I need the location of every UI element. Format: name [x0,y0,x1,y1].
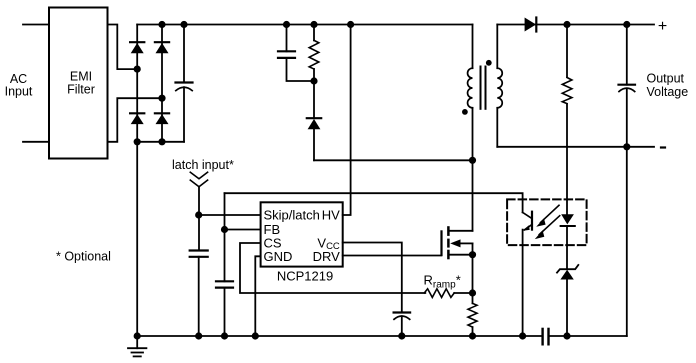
capacitor: FB cap [216,281,233,336]
diode D1 bridge upper-left [130,42,144,53]
node: EMI+ to bridge [134,66,141,73]
wire: bridge right column [161,25,163,142]
wire: secondary top rail to + output [497,24,654,26]
node: skip/latch junction [195,211,202,218]
node: + rail at LED resistor [563,21,570,28]
capacitor: output cap (polarized) [619,25,636,147]
node: ground at GND pin [252,332,259,339]
node: + rail at output cap [623,21,630,28]
transistor Q1 power MOSFET [442,226,473,293]
node: snubber RC junction [310,77,317,84]
wire: Rramp to source node [454,292,472,294]
wire: main HV top rail [137,24,472,26]
label: Output Voltage [647,72,689,100]
optocoupler LED [561,214,575,269]
wire: CS pin loop to Rramp [240,243,425,293]
transformer T1 core [481,67,486,109]
wire: EMI upper output to bridge node [108,25,138,70]
latch input marker (double chevron) [190,172,207,187]
svg-text:Rramp*: Rramp* [424,272,461,290]
svg-text:Filter: Filter [67,83,95,97]
node: drain node [469,157,476,164]
transformer T1 secondary [497,25,502,147]
node: Rramp/sense junction [469,289,476,296]
wire: secondary bottom rail to - output [497,146,654,148]
wire: bridge left column / primary ground drop [136,25,138,337]
wire: AC input top line [23,24,49,26]
capacitor: bulk cap (polarized) [176,25,193,142]
wire: FB vertical [224,193,226,281]
wire: GND pin drop [255,256,260,336]
transformer primary phase dot [462,109,468,115]
optocoupler transistor [523,212,532,336]
node: EMI- to bridge [158,95,165,102]
wire: AC input bottom line [23,141,49,143]
diode D3 bridge lower-left [130,113,144,124]
optocoupler light arrows [535,205,560,239]
node: rail at HV line [347,21,354,28]
diode: clamp diode [307,81,321,160]
transformer secondary phase dot [486,60,492,66]
node: secondary ground at zener [563,332,570,339]
label: EMI Filter [67,70,95,97]
node: rail at right column [158,21,165,28]
svg-text:EMI: EMI [70,70,92,84]
resistor Rramp [424,289,454,298]
diode: output rectifier [525,18,537,32]
wire: EMI lower output to bridge node [108,98,163,142]
wire: bridge bottom wire [137,141,184,143]
wire: HV pin line from rail [343,25,351,216]
capacitor: Y-cap [543,329,549,344]
wire: clamp diode return to drain node [314,159,473,161]
wire: primary ground rail [137,335,542,337]
diode D2 bridge upper-right [155,42,169,53]
svg-text:Voltage: Voltage [647,85,689,99]
ground symbol [128,336,146,356]
node: ground at FB cap [221,332,228,339]
wire: VCC pin to cap [343,243,402,313]
resistor: current sense [468,293,477,336]
node: MOSFET source [469,251,476,258]
node: bridge bottom right [158,138,165,145]
wire: - output drop to secondary ground [626,147,628,336]
wire: DRV pin to gate [343,255,442,257]
svg-text:NCP1219: NCP1219 [277,269,333,284]
svg-text:latch input*: latch input* [172,158,234,172]
wire: FB to optocoupler collector [225,193,523,212]
capacitor: snubber clamp cap [278,25,314,82]
node: ground at latch cap [195,332,202,339]
svg-text:HV: HV [322,208,340,223]
node: bridge bottom left [134,138,141,145]
optocoupler dashed box [507,199,586,245]
capacitor: latch pin cap [190,251,208,337]
svg-text:GND: GND [264,249,293,264]
diode D4 bridge lower-right [155,113,169,124]
svg-text:DRV: DRV [313,249,341,264]
node: - rail at output cap [623,143,630,150]
svg-text:Skip/latch: Skip/latch [264,208,320,223]
transformer T1 primary [468,25,473,231]
node: rail at snubber cap [283,21,290,28]
svg-text:Output: Output [647,72,685,86]
label: AC Input [5,72,33,98]
zener diode [557,265,578,336]
wire: Skip/latch pin [199,214,261,216]
node: rail at bulk cap [180,21,187,28]
wire: secondary ground rail [549,335,627,337]
wire: latch input drop [198,187,200,251]
label: - output [660,146,666,148]
node: ground at sense resistor [469,332,476,339]
node: ground at opto emitter [519,332,526,339]
node: ground at bridge [134,332,141,339]
EMI filter block [49,8,108,159]
node: ground at VCC cap [398,332,405,339]
IC U1 NCP1219 box [261,202,343,266]
resistor: snubber clamp resistor [309,25,319,82]
wire: FB pin [225,229,261,231]
node: FB junction [221,226,228,233]
resistor: LED bias resistor [562,25,572,217]
svg-text:* Optional: * Optional [56,249,111,263]
node: rail at snubber resistor [310,21,317,28]
svg-text:+: + [658,18,667,35]
capacitor: VCC cap (polarized) [394,313,411,337]
svg-text:Input: Input [5,84,33,98]
